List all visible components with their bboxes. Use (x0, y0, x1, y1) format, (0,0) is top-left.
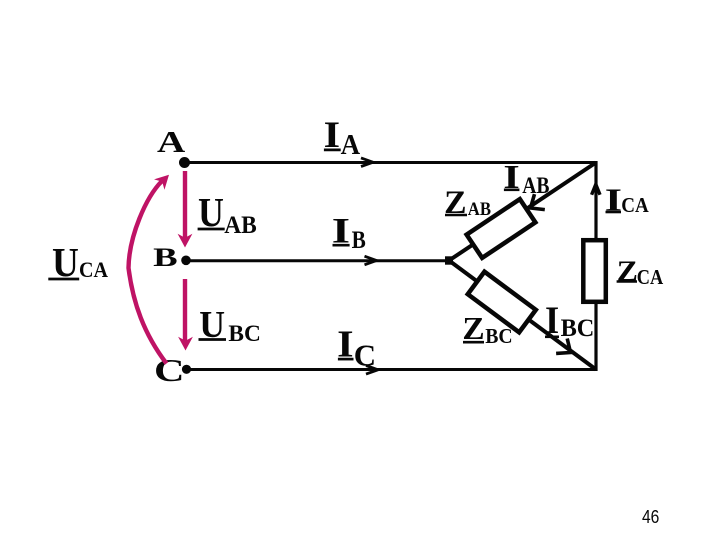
svg-text:BC: BC (561, 314, 595, 342)
label A (157, 125, 185, 159)
label Z_BC (462, 310, 512, 348)
svg-text:C: C (154, 352, 185, 388)
current arrow I_A on line A (361, 158, 373, 167)
voltage arrow U_CA (magenta curved, from C up to A) (129, 170, 175, 364)
svg-text:I: I (545, 298, 559, 342)
svg-text:Z: Z (462, 310, 484, 346)
node A terminal dot (179, 157, 190, 168)
label U_AB (198, 189, 257, 239)
svg-text:B: B (153, 243, 177, 272)
label U_BC (199, 304, 261, 346)
svg-text:AB: AB (224, 210, 256, 239)
label I_BC (545, 298, 594, 342)
label U_CA (48, 239, 108, 285)
label I_AB (503, 159, 549, 198)
wire: phase line C (186, 368, 596, 371)
wire: diagonal from junction to top-right corner (449, 163, 596, 261)
svg-text:AB: AB (522, 173, 549, 198)
label Z_AB (444, 185, 491, 221)
wire: phase line A (184, 161, 596, 164)
label Z_CA (617, 256, 664, 289)
svg-text:BC: BC (228, 320, 260, 346)
impedance Z_CA (vertical rectangle) (583, 240, 606, 302)
svg-text:A: A (157, 125, 185, 159)
current arrow I_C on line C (366, 366, 378, 375)
wire: diagonal from junction to bottom-right corner (449, 261, 596, 370)
current arrow I_CA on right vertical (pointing up) (592, 184, 600, 195)
wire: phase line B (185, 259, 449, 262)
label I_CA (605, 182, 649, 217)
label B (153, 243, 177, 272)
impedance Z_BC (tilted rectangle) (468, 272, 536, 333)
voltage arrow U_AB (magenta, from A down to B) (178, 171, 193, 248)
current arrow I_B on line B (365, 256, 377, 265)
page number 46 (642, 506, 659, 527)
svg-text:BC: BC (485, 326, 512, 348)
svg-text:C: C (354, 337, 376, 372)
node B terminal dot (181, 255, 191, 265)
svg-text:A: A (341, 130, 361, 161)
svg-text:CA: CA (79, 258, 108, 282)
node C terminal dot (182, 365, 191, 374)
svg-text:CA: CA (621, 195, 649, 217)
impedance Z_AB (tilted rectangle) (467, 199, 536, 258)
label I_B (332, 211, 366, 255)
current arrow I_BC on diagonal (toward corner C) (556, 338, 576, 359)
svg-text:AB: AB (468, 199, 492, 220)
label I_A (324, 114, 361, 161)
svg-text:46: 46 (642, 506, 659, 527)
node: delta junction on line B (445, 256, 453, 264)
wire: right vertical from top corner to bottom corner (594, 161, 597, 371)
voltage arrow U_BC (magenta, from B down to C) (178, 279, 193, 351)
current arrow I_AB on diagonal (toward junction) (525, 194, 544, 216)
label I_C (337, 323, 376, 372)
label C (154, 352, 185, 388)
svg-text:B: B (352, 225, 366, 254)
svg-text:CA: CA (637, 265, 664, 289)
